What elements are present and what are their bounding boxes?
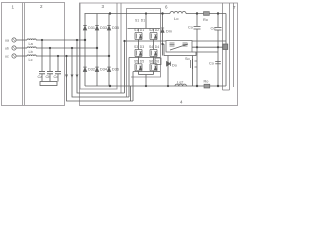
svg-text:ua: ua: [5, 39, 9, 43]
svg-text:D32: D32: [88, 68, 95, 72]
svg-text:S1: S1: [134, 28, 138, 32]
svg-text:D33: D33: [100, 26, 107, 30]
svg-text:2: 2: [40, 4, 43, 9]
svg-text:Do: Do: [172, 64, 177, 68]
svg-text:S6: S6: [149, 59, 153, 63]
svg-text:S3: S3: [134, 45, 138, 49]
svg-text:Cc: Cc: [54, 75, 59, 79]
svg-text:3: 3: [102, 4, 105, 9]
svg-text:Dm: Dm: [166, 30, 172, 34]
svg-text:D31: D31: [88, 26, 95, 30]
svg-text:ub: ub: [5, 47, 9, 51]
svg-text:D3: D3: [140, 45, 144, 49]
svg-text:S1: S1: [135, 19, 139, 23]
svg-text:Co: Co: [188, 26, 193, 30]
svg-text:S5: S5: [134, 59, 138, 63]
svg-text:D34: D34: [100, 68, 107, 72]
svg-text:D36: D36: [112, 68, 119, 72]
svg-text:S4: S4: [149, 45, 153, 49]
svg-text:Co: Co: [209, 62, 214, 66]
svg-text:Lb: Lb: [29, 50, 33, 54]
svg-text:D35: D35: [112, 26, 119, 30]
svg-text:6: 6: [165, 5, 168, 10]
svg-text:1: 1: [12, 5, 15, 10]
svg-text:D2: D2: [155, 28, 159, 32]
svg-text:D1: D1: [141, 19, 145, 23]
svg-text:Lo: Lo: [174, 16, 179, 21]
svg-text:D1: D1: [140, 28, 144, 32]
svg-text:Cb: Cb: [46, 75, 51, 79]
svg-text:D6: D6: [155, 59, 159, 63]
svg-text:4: 4: [180, 100, 183, 105]
svg-text:S2: S2: [149, 28, 153, 32]
svg-text:Ro: Ro: [203, 18, 208, 22]
svg-text:Cd: Cd: [211, 27, 216, 31]
svg-text:D5: D5: [140, 59, 144, 63]
svg-text:So: So: [185, 57, 190, 61]
svg-text:Ro: Ro: [204, 80, 209, 84]
svg-text:uc: uc: [5, 55, 9, 59]
svg-text:7: 7: [233, 5, 236, 10]
svg-text:Lc: Lc: [29, 58, 33, 62]
svg-text:La: La: [29, 42, 34, 46]
svg-text:D4: D4: [155, 45, 159, 49]
svg-text:Lo2: Lo2: [177, 81, 183, 85]
